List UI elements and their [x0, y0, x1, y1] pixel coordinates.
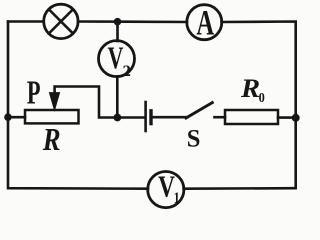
- wire: switch contact to R0: [215, 116, 226, 119]
- svg-text:S: S: [187, 125, 201, 152]
- svg-text:R: R: [240, 73, 260, 103]
- wire: lamp to ammeter along top: [78, 20, 187, 23]
- svg-text:R: R: [42, 123, 61, 158]
- node dot on top wire: [114, 18, 122, 26]
- rheostat R body: [25, 110, 79, 123]
- middle junction dot: [114, 114, 122, 122]
- voltmeter V2 circle: [99, 41, 135, 77]
- wire: V2 bottom to middle junction: [116, 76, 119, 117]
- battery short thick plate: [149, 111, 152, 124]
- wire: V1 to bottom-left corner, up left side: [8, 22, 148, 189]
- resistor R0 body: [225, 110, 278, 124]
- rheostat slider wire P: up, right, down to junction row: [55, 87, 145, 118]
- svg-text:1: 1: [174, 190, 180, 208]
- svg-text:2: 2: [123, 61, 131, 80]
- wire: left wire to rheostat R: [8, 116, 25, 119]
- svg-text:0: 0: [259, 90, 265, 106]
- switch S blade: [186, 103, 212, 118]
- wire: ammeter to top-right corner, down right side: [222, 22, 296, 189]
- svg-text:P: P: [27, 75, 41, 111]
- wire: bottom-right, corner to V1: [184, 187, 296, 190]
- svg-text:V: V: [108, 40, 124, 75]
- battery long plate: [144, 102, 147, 131]
- wire: R0 to right node: [278, 116, 296, 119]
- slider arrow head: [49, 93, 59, 111]
- svg-text:V: V: [158, 169, 175, 203]
- svg-text:A: A: [196, 3, 214, 43]
- ammeter U-A circle: [187, 5, 222, 40]
- lamp L (circle with X): [44, 4, 78, 38]
- wire: node on top to V2 top: [116, 22, 119, 42]
- wire: battery to switch: [153, 116, 187, 119]
- node dot on right wire: [292, 114, 300, 122]
- voltmeter V1 circle: [148, 172, 184, 208]
- node dot on left wire: [4, 113, 12, 121]
- wire top-left: left corner to lamp: [8, 20, 43, 23]
